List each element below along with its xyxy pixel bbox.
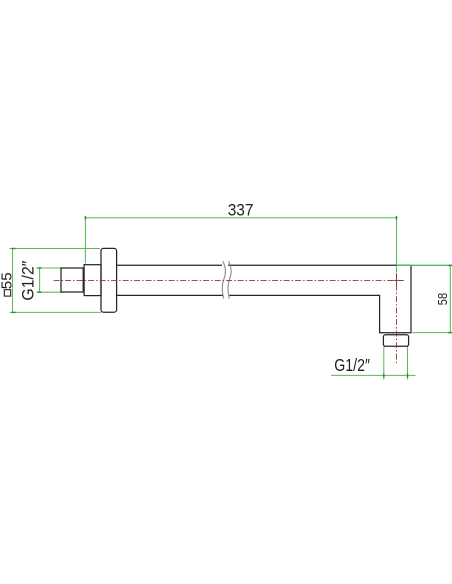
svg-text:G1/2″: G1/2″ xyxy=(19,261,38,301)
svg-text:58: 58 xyxy=(436,293,450,305)
svg-text:55: 55 xyxy=(0,272,15,289)
svg-text:337: 337 xyxy=(228,201,254,220)
svg-text:G1/2″: G1/2″ xyxy=(334,355,370,375)
